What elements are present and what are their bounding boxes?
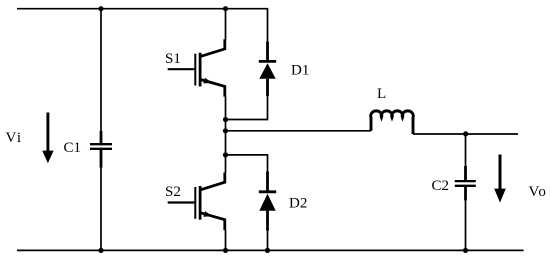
- diode D1: [259, 42, 276, 97]
- wire C2 branch bottom: [465, 200, 467, 250]
- svg-text:S1: S1: [165, 51, 181, 67]
- node bottom rail / C1: [98, 248, 103, 253]
- inductor L: [371, 111, 414, 134]
- arrow Vo: [494, 155, 506, 203]
- node bottom rail / S2 emitter: [223, 248, 228, 253]
- wire mid vertical S1-S2: [225, 96, 227, 173]
- wire S2 emitter to bottom rail: [225, 230, 227, 250]
- wire top rail: [17, 9, 268, 42]
- wire bottom rail: [17, 249, 524, 251]
- capacitor C2: [455, 166, 476, 201]
- node A / inductor: [223, 128, 228, 133]
- node bottom rail / D2: [265, 248, 270, 253]
- node bottom rail / C2: [463, 248, 468, 253]
- diode D2: [259, 171, 276, 230]
- svg-text:C2: C2: [432, 178, 450, 194]
- node top rail / C1: [98, 6, 103, 11]
- svg-text:C1: C1: [64, 140, 82, 156]
- transistor S1: [168, 39, 225, 96]
- svg-text:D2: D2: [289, 196, 307, 212]
- node A / D2: [223, 152, 228, 157]
- node top rail / S1 collector: [223, 6, 228, 11]
- wire D1 anode to node A: [226, 96, 268, 120]
- wire C2 branch top: [465, 134, 467, 167]
- wire node A to inductor: [226, 130, 372, 132]
- wire S1 collector riser: [225, 9, 227, 40]
- node A / D1: [223, 117, 228, 122]
- node output / C2 top: [463, 131, 468, 136]
- svg-text:Vo: Vo: [529, 184, 547, 200]
- wire C1 branch bottom: [100, 167, 102, 250]
- svg-text:L: L: [377, 86, 386, 102]
- svg-text:Vi: Vi: [6, 130, 23, 146]
- arrow Vi: [42, 113, 53, 164]
- wire C1 branch top: [100, 9, 102, 132]
- svg-text:D1: D1: [291, 63, 309, 79]
- transistor S2: [168, 173, 225, 231]
- svg-text:S2: S2: [165, 184, 181, 200]
- wire node A to D2 cathode: [226, 155, 268, 172]
- wire D2 anode to bottom rail: [267, 230, 269, 250]
- capacitor C1: [90, 131, 112, 168]
- wire inductor to output: [413, 133, 518, 135]
